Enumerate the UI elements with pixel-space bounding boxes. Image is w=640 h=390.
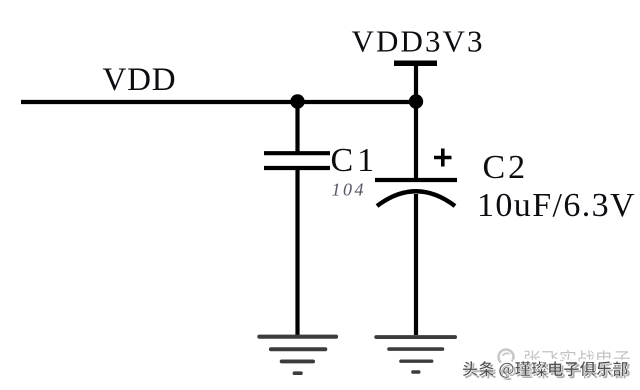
watermark faint text 张飞实战电子 [525, 350, 630, 366]
junction node at C2 [409, 94, 423, 108]
wire: rail down to C1 top plate [295, 102, 299, 153]
capacitor C2 top plate [375, 178, 457, 182]
svg-text:VDD3V3: VDD3V3 [352, 23, 485, 58]
wire: C1 bottom plate down to ground [295, 168, 299, 336]
capacitor C1 bottom plate [264, 166, 330, 170]
capacitor C1 top plate [264, 151, 330, 155]
junction node at C1 [290, 94, 304, 108]
wire: main VDD horizontal rail [21, 100, 418, 104]
wire: C2 bottom plate down to ground [414, 194, 418, 335]
svg-text:104: 104 [332, 180, 367, 200]
capacitor C2 curved bottom plate [377, 191, 455, 206]
capacitor C2 plus sign [434, 156, 452, 160]
watermark main text 头条@瑾璨电子俱乐部 [463, 361, 628, 378]
watermark logo circle [499, 350, 514, 365]
watermark main text inner erosion [463, 361, 628, 378]
power symbol VDD3V3 bar [394, 60, 437, 66]
svg-text:C1: C1 [331, 142, 379, 179]
ground symbol left [257, 335, 338, 375]
watermark main text shadow [465, 363, 630, 380]
wire: rail down to C2 top plate [414, 102, 418, 182]
watermark main text glow [463, 361, 628, 378]
svg-text:10uF/6.3V: 10uF/6.3V [477, 187, 636, 224]
svg-text:C2: C2 [483, 149, 529, 186]
ground symbol right [374, 335, 457, 374]
wire: stub from VDD3V3 bar to rail [414, 64, 418, 103]
svg-text:VDD: VDD [103, 62, 177, 98]
